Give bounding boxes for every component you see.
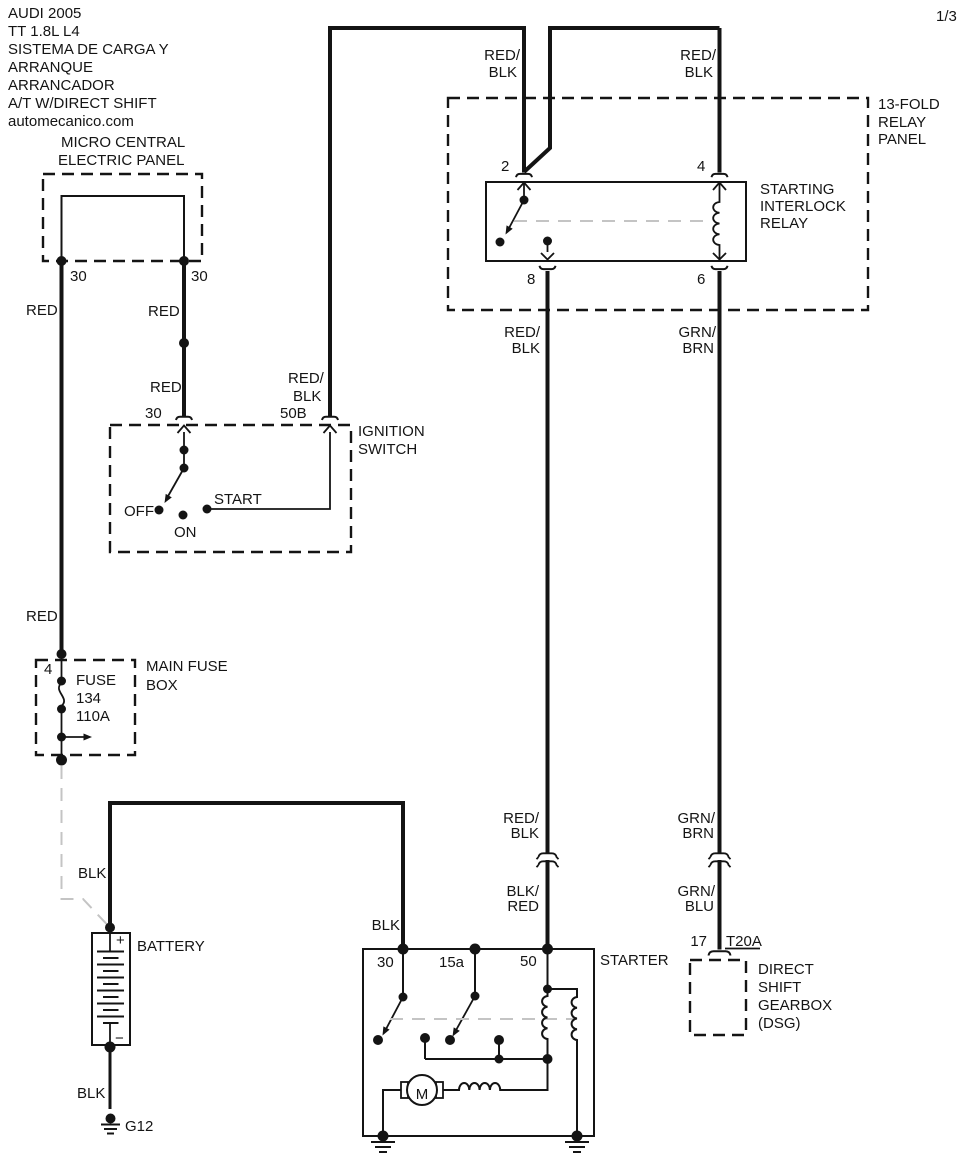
motor M armature bbox=[401, 1082, 408, 1098]
ignition switch dashed box bbox=[110, 425, 351, 552]
solenoid hold-in winding bbox=[548, 989, 578, 1136]
wire GRN/BRN relay 6 down bbox=[718, 271, 722, 853]
svg-text:T20A: T20A bbox=[726, 933, 762, 950]
svg-text:DIRECT: DIRECT bbox=[758, 961, 814, 978]
svg-text:RED: RED bbox=[26, 608, 58, 625]
node battery positive terminal bbox=[105, 923, 115, 933]
node starter terminal 15a bbox=[470, 944, 481, 955]
relay contact node to terminal 8 bbox=[543, 237, 552, 246]
svg-text:AUDI 2005: AUDI 2005 bbox=[8, 5, 81, 22]
node battery negative terminal bbox=[105, 1042, 116, 1053]
inline connector (GRN/BRN to GRN/BLU) bbox=[709, 853, 731, 859]
svg-text:RED/: RED/ bbox=[484, 47, 521, 64]
svg-text:30: 30 bbox=[377, 954, 394, 971]
node terminal 30 left (micro panel) bbox=[57, 256, 67, 266]
relay switch arm arrow bbox=[508, 200, 524, 230]
micro central electric panel dashed box bbox=[43, 174, 202, 261]
wire RED left (micro panel to fuse box) bbox=[60, 261, 64, 654]
wire RED right (micro panel to ignition switch) bbox=[182, 261, 186, 416]
svg-text:110A: 110A bbox=[76, 708, 110, 725]
ground (starter left) bbox=[378, 1131, 389, 1142]
svg-text:BLK: BLK bbox=[293, 388, 321, 405]
svg-text:13-FOLD: 13-FOLD bbox=[878, 96, 940, 113]
svg-text:G12: G12 bbox=[125, 1118, 153, 1135]
relay contact node (lower left) bbox=[496, 238, 505, 247]
svg-text:RED/: RED/ bbox=[504, 324, 541, 341]
svg-text:RELAY: RELAY bbox=[878, 114, 926, 131]
svg-text:4: 4 bbox=[44, 661, 52, 678]
svg-text:MAIN FUSE: MAIN FUSE bbox=[146, 658, 228, 675]
svg-text:BLK: BLK bbox=[78, 865, 106, 882]
ignition switch arm (arrow to OFF) bbox=[167, 468, 184, 498]
wire BLK battery positive to starter 30 bbox=[110, 803, 403, 949]
svg-text:BRN: BRN bbox=[682, 825, 714, 842]
title text block bbox=[8, 5, 169, 130]
node fuse wire junction bbox=[57, 649, 67, 659]
node contact dot (solenoid link left) bbox=[420, 1033, 430, 1043]
svg-text:STARTER: STARTER bbox=[600, 952, 669, 969]
svg-text:M: M bbox=[416, 1086, 429, 1103]
svg-text:SISTEMA DE CARGA Y: SISTEMA DE CARGA Y bbox=[8, 41, 169, 58]
svg-text:(DSG): (DSG) bbox=[758, 1015, 801, 1032]
svg-text:TT 1.8L L4: TT 1.8L L4 bbox=[8, 23, 80, 40]
wire RED/BLK 50B up and across top to relay terminal 2 bbox=[330, 28, 524, 416]
svg-text:2: 2 bbox=[501, 158, 509, 175]
wire GRN/BLU down to DSG bbox=[718, 860, 722, 950]
relay coil bbox=[713, 183, 719, 260]
node junction on RED wire bbox=[179, 338, 189, 348]
armature winding bbox=[443, 1083, 548, 1090]
svg-text:BLK: BLK bbox=[685, 64, 713, 81]
svg-text:GRN/: GRN/ bbox=[679, 324, 717, 341]
solenoid pull-in winding bbox=[542, 989, 547, 1059]
svg-text:6: 6 bbox=[697, 271, 705, 288]
svg-text:ON: ON bbox=[174, 524, 197, 541]
svg-text:−: − bbox=[115, 1030, 124, 1047]
svg-text:50B: 50B bbox=[280, 405, 307, 422]
svg-text:RELAY: RELAY bbox=[760, 215, 808, 232]
label MICRO CENTRAL ELECTRIC PANEL bbox=[58, 134, 185, 169]
svg-text:IGNITION: IGNITION bbox=[358, 423, 425, 440]
svg-text:134: 134 bbox=[76, 690, 101, 707]
wire BLK/RED down to starter 50 bbox=[546, 860, 550, 949]
node contact dot below 15a switch bbox=[445, 1035, 455, 1045]
svg-text:17: 17 bbox=[690, 933, 707, 950]
relay switch contact node bbox=[520, 196, 529, 205]
wire starter 50 down bbox=[547, 949, 549, 989]
svg-text:15a: 15a bbox=[439, 954, 465, 971]
svg-text:BLK: BLK bbox=[77, 1085, 105, 1102]
node starter terminal 30 bbox=[398, 944, 409, 955]
mechanical link dashed (relay) bbox=[514, 220, 710, 222]
ground G12 bbox=[106, 1114, 116, 1124]
wire BLK battery negative to ground bbox=[109, 1047, 112, 1109]
svg-text:RED/: RED/ bbox=[288, 370, 325, 387]
battery bbox=[92, 933, 130, 1045]
node junction bbox=[180, 446, 189, 455]
svg-text:4: 4 bbox=[697, 158, 705, 175]
svg-text:BATTERY: BATTERY bbox=[137, 938, 205, 955]
starting interlock relay box bbox=[486, 182, 746, 261]
ground (starter right) bbox=[572, 1131, 583, 1142]
svg-text:START: START bbox=[214, 491, 262, 508]
wire ignition internal from 30 bbox=[183, 432, 185, 468]
svg-text:BLU: BLU bbox=[685, 898, 714, 915]
node contact dot below 30 switch bbox=[373, 1035, 383, 1045]
node starter terminal 50 bbox=[542, 944, 553, 955]
svg-text:BLK: BLK bbox=[511, 825, 539, 842]
svg-text:ARRANCADOR: ARRANCADOR bbox=[8, 77, 115, 94]
svg-text:A/T W/DIRECT SHIFT: A/T W/DIRECT SHIFT bbox=[8, 95, 157, 112]
svg-text:RED: RED bbox=[507, 898, 539, 915]
svg-text:ELECTRIC PANEL: ELECTRIC PANEL bbox=[58, 152, 184, 169]
wire contact bus bbox=[425, 1058, 548, 1060]
svg-text:PANEL: PANEL bbox=[878, 131, 926, 148]
starter switch 30 contact bbox=[402, 949, 404, 997]
svg-text:OFF: OFF bbox=[124, 503, 154, 520]
svg-text:BLK: BLK bbox=[489, 64, 517, 81]
inline connector (RED/BLK to BLK/RED) bbox=[537, 853, 559, 859]
fuse output arrow node bbox=[57, 733, 66, 742]
starter box bbox=[363, 949, 594, 1136]
13-fold relay panel dashed box bbox=[448, 98, 868, 310]
svg-text:BOX: BOX bbox=[146, 677, 178, 694]
micro central panel inner box bbox=[62, 196, 185, 261]
mechanical link dashed (starter) bbox=[390, 1018, 574, 1020]
node OFF contact bbox=[155, 506, 164, 515]
svg-text:FUSE: FUSE bbox=[76, 672, 116, 689]
starter switch 15a contact bbox=[474, 949, 476, 996]
svg-text:automecanico.com: automecanico.com bbox=[8, 113, 134, 130]
node fuse box bottom terminal bbox=[56, 755, 67, 766]
svg-text:BLK: BLK bbox=[512, 340, 540, 357]
node switch pivot bbox=[180, 464, 189, 473]
svg-text:SWITCH: SWITCH bbox=[358, 441, 417, 458]
node ON contact bbox=[179, 511, 188, 520]
direct shift gearbox dashed box bbox=[690, 960, 746, 1035]
svg-text:RED: RED bbox=[150, 379, 182, 396]
svg-text:50: 50 bbox=[520, 953, 537, 970]
node terminal 30 right (micro panel) bbox=[179, 256, 189, 266]
main fuse box dashed box bbox=[36, 660, 135, 755]
svg-text:30: 30 bbox=[145, 405, 162, 422]
svg-text:MICRO CENTRAL: MICRO CENTRAL bbox=[61, 134, 185, 151]
svg-text:BRN: BRN bbox=[682, 340, 714, 357]
node contact dot (solenoid link right) bbox=[494, 1035, 504, 1045]
node START contact bbox=[203, 505, 212, 514]
wire motor to ground bbox=[383, 1090, 401, 1136]
svg-text:RED: RED bbox=[26, 302, 58, 319]
svg-text:INTERLOCK: INTERLOCK bbox=[760, 198, 846, 215]
wire START to 50B bbox=[211, 432, 330, 509]
svg-text:BLK: BLK bbox=[372, 917, 400, 934]
svg-text:1/3: 1/3 bbox=[936, 8, 957, 25]
fuse 134 110A element bbox=[61, 654, 63, 681]
wire RED/BLK from relay terminal 4 across top bbox=[524, 26, 720, 173]
svg-text:+: + bbox=[116, 932, 125, 949]
svg-text:RED/: RED/ bbox=[680, 47, 717, 64]
svg-text:8: 8 bbox=[527, 271, 535, 288]
svg-text:SHIFT: SHIFT bbox=[758, 979, 801, 996]
svg-text:STARTING: STARTING bbox=[760, 181, 834, 198]
wire dashed (fuse box to battery) bbox=[62, 766, 108, 925]
svg-text:GEARBOX: GEARBOX bbox=[758, 997, 832, 1014]
svg-text:30: 30 bbox=[70, 268, 87, 285]
wire RED/BLK relay 8 down bbox=[546, 271, 550, 853]
svg-text:RED: RED bbox=[148, 303, 180, 320]
node winding junction bbox=[543, 1054, 553, 1064]
svg-text:30: 30 bbox=[191, 268, 208, 285]
svg-text:ARRANQUE: ARRANQUE bbox=[8, 59, 93, 76]
